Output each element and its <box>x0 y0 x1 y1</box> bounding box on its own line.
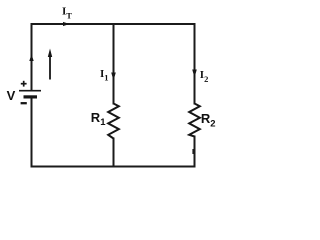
wire top (node A) <box>32 23 195 25</box>
battery V positive plate <box>19 90 41 92</box>
wire middle branch lower <box>113 139 115 167</box>
scan blob on right wire <box>192 149 195 154</box>
arrowhead up on left wire <box>29 54 33 61</box>
arrow I2 down on right wire <box>192 70 197 78</box>
minus sign <box>21 102 27 104</box>
wire middle branch upper <box>113 24 115 104</box>
wire right branch upper <box>194 24 196 104</box>
resistor R1 <box>108 104 119 139</box>
arrow I1 down on middle wire <box>111 73 116 81</box>
wire left lower (battery - to bottom) <box>31 97 33 167</box>
arrow IT on top wire <box>63 22 70 26</box>
wire bottom (node B) <box>32 166 195 168</box>
battery V negative plate <box>24 95 38 98</box>
plus sign <box>21 81 27 87</box>
floating up arrow (current direction) <box>48 49 52 80</box>
wire right branch lower <box>194 137 196 167</box>
wire left upper (battery + to top) <box>31 24 33 91</box>
svg-text:V: V <box>7 88 16 103</box>
resistor R2 <box>189 104 200 137</box>
